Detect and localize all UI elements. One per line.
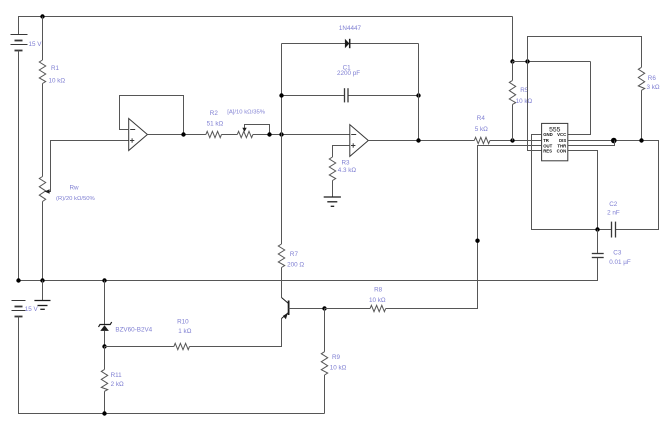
wire zener to R10 R11 node — [104, 331, 106, 347]
diode D1 1N4447 — [345, 39, 350, 48]
op-amp U1 minus sign — [130, 129, 135, 131]
svg-text:RES: RES — [543, 149, 552, 154]
svg-text:Rw: Rw — [70, 184, 80, 191]
node battery V1 top rail junction — [40, 14, 44, 18]
wire R10 to transistor emitter — [190, 319, 282, 347]
svg-text:4.3 kΩ: 4.3 kΩ — [338, 167, 357, 174]
transistor Q1 emitter arrow — [283, 313, 288, 319]
potentiometer Rw — [39, 177, 45, 202]
node U2 output junction — [416, 138, 420, 142]
resistor R9 — [321, 309, 327, 414]
wire integrator left vertical — [281, 44, 283, 245]
IC U3 555 box — [542, 123, 568, 160]
wire GND pin to C2 C3 node — [532, 135, 598, 230]
svg-text:5 kΩ: 5 kΩ — [475, 126, 488, 133]
svg-text:3 kΩ: 3 kΩ — [647, 84, 660, 91]
zener diode D2 BZV60-B2V4 — [99, 322, 112, 331]
svg-text:R11: R11 — [111, 372, 123, 379]
svg-text:(R)/20 kΩ/50%: (R)/20 kΩ/50% — [56, 196, 96, 202]
wire node to R8 — [325, 308, 371, 310]
resistor R5 — [509, 62, 515, 141]
capacitor C1 — [345, 88, 349, 102]
wire node to R10 — [105, 346, 174, 348]
svg-text:R4: R4 — [477, 115, 486, 122]
node pot A right terminal — [267, 132, 271, 136]
wiper arrow potentiometer A — [242, 128, 246, 132]
svg-text:C3: C3 — [613, 250, 622, 257]
node R11 bottom rail — [102, 411, 106, 415]
op-amp U1 — [129, 119, 148, 151]
svg-text:2200 pF: 2200 pF — [337, 70, 360, 77]
svg-text:TR: TR — [543, 138, 550, 143]
wire pot A to op-amp U2 minus input — [253, 134, 350, 136]
svg-text:R2: R2 — [210, 110, 219, 117]
resistor R2 — [206, 131, 222, 137]
wire battery V2 to bottom rail — [19, 317, 325, 414]
node R6 DIS junction — [639, 138, 643, 142]
svg-text:51 kΩ: 51 kΩ — [207, 120, 224, 127]
svg-text:10 kΩ: 10 kΩ — [369, 297, 386, 304]
wire top rail down to node A — [512, 17, 514, 62]
svg-text:10 kΩ: 10 kΩ — [49, 78, 66, 85]
resistor R11 — [101, 347, 107, 414]
potentiometer A body — [237, 131, 253, 137]
op-amp U1 plus sign — [130, 138, 134, 142]
svg-text:VCC: VCC — [557, 132, 566, 137]
node U1 output junction — [181, 132, 185, 136]
svg-text:2 kΩ: 2 kΩ — [111, 381, 124, 388]
node B — [525, 59, 529, 63]
wire C3 top stub — [597, 230, 599, 254]
resistor R4 — [474, 137, 490, 143]
node Rw ground junction — [40, 278, 44, 282]
svg-text:R9: R9 — [332, 354, 341, 361]
svg-text:CON: CON — [557, 149, 567, 154]
ground symbol at battery — [34, 281, 50, 310]
wire R2 to potentiometer A — [222, 134, 238, 136]
wiper arrow Rw — [45, 189, 50, 194]
wire zener branch — [104, 281, 106, 325]
wire OUT pin left and down to R8 — [388, 146, 542, 309]
svg-text:R8: R8 — [374, 286, 383, 293]
node marker on OUT drop — [475, 239, 479, 243]
wire R8 right gap — [386, 308, 388, 310]
wire U2 output to 555 TR — [368, 140, 474, 142]
svg-text:GND: GND — [543, 132, 553, 137]
resistor R3 — [329, 157, 335, 181]
svg-text:R6: R6 — [648, 75, 657, 82]
svg-text:200 Ω: 200 Ω — [287, 262, 304, 269]
resistor R8 — [370, 305, 386, 311]
svg-text:1 kΩ: 1 kΩ — [178, 328, 191, 335]
battery V2 — [12, 301, 26, 317]
svg-text:[A]/10 kΩ/35%: [A]/10 kΩ/35% — [227, 110, 266, 116]
node C2 C3 CON junction — [595, 227, 599, 231]
node C1 left — [279, 93, 283, 97]
potentiometer A wiper loop — [245, 125, 270, 135]
svg-text:15 V: 15 V — [25, 306, 39, 313]
node zener top junction — [102, 278, 106, 282]
wire R3 to ground — [332, 181, 334, 198]
svg-text:C2: C2 — [609, 201, 618, 208]
resistor R1 — [39, 60, 45, 84]
svg-text:R1: R1 — [51, 65, 60, 72]
resistor R10 — [174, 343, 190, 349]
node base R8 R9 — [322, 306, 326, 310]
wire U2 plus input to R3 — [333, 146, 350, 158]
op-amp U2 plus sign — [351, 143, 355, 147]
wire node B down to RES pin — [528, 62, 542, 151]
svg-text:BZV60-B2V4: BZV60-B2V4 — [115, 327, 152, 334]
transistor Q1 — [282, 298, 289, 319]
capacitor C2 — [612, 222, 616, 238]
wire Q1 base to R8 R9 node — [289, 308, 325, 310]
wire VCC corner down to VCC pin — [568, 62, 591, 135]
wire R1 branch top — [42, 17, 44, 61]
svg-text:2 nF: 2 nF — [607, 209, 620, 216]
wire Rw wiper to op-amp U1 plus input — [45, 141, 129, 192]
op-amp U2 minus sign — [351, 134, 356, 136]
svg-text:R3: R3 — [342, 159, 351, 166]
wire C1 branch — [282, 95, 419, 97]
svg-text:1N4447: 1N4447 — [339, 25, 362, 32]
wire CON pin down to C2 C3 node — [568, 151, 598, 230]
op-amp U2 — [350, 125, 369, 157]
wire battery V1 minus down to ground rail — [18, 51, 20, 281]
battery V1 — [11, 35, 28, 51]
wire integrator right vertical — [418, 44, 420, 141]
resistor R6 — [638, 67, 644, 140]
wire node B up and right to R6 — [528, 37, 642, 68]
wire diode top branch — [282, 43, 419, 45]
node A — [510, 59, 514, 63]
node zener R10 R11 — [102, 344, 106, 348]
svg-text:DIS: DIS — [559, 138, 566, 143]
svg-text:10 kΩ: 10 kΩ — [330, 365, 347, 372]
svg-text:15 V: 15 V — [29, 41, 43, 48]
wire THR pin up to DIS — [568, 141, 615, 146]
wire R4 to 555 TR pin — [490, 140, 542, 142]
wire Rw bottom to ground rail — [42, 202, 44, 281]
resistor R7 — [278, 244, 284, 298]
wire C2 left stub — [598, 229, 612, 231]
svg-text:0.01 µF: 0.01 µF — [609, 259, 631, 266]
ground under R3 — [324, 197, 341, 206]
node integrator input — [279, 132, 283, 136]
node R5 bottom junction — [510, 138, 514, 142]
wire ground rail — [19, 258, 598, 281]
node battery rail junction — [16, 278, 20, 282]
wire +15V top rail — [19, 17, 513, 35]
svg-text:10 kΩ: 10 kΩ — [516, 98, 533, 105]
svg-text:R10: R10 — [177, 319, 189, 326]
node C1 right — [416, 93, 420, 97]
wire DIS line to right loop — [568, 141, 659, 230]
capacitor C3 — [592, 254, 604, 258]
wire U1 feedback loop — [120, 96, 184, 135]
svg-text:R7: R7 — [290, 251, 299, 258]
wire U1 output to R2 — [147, 134, 206, 136]
wire R1 to Rw — [42, 84, 44, 177]
node DIS THR junction — [611, 138, 617, 144]
wire node A to node B to VCC corner — [513, 61, 591, 63]
